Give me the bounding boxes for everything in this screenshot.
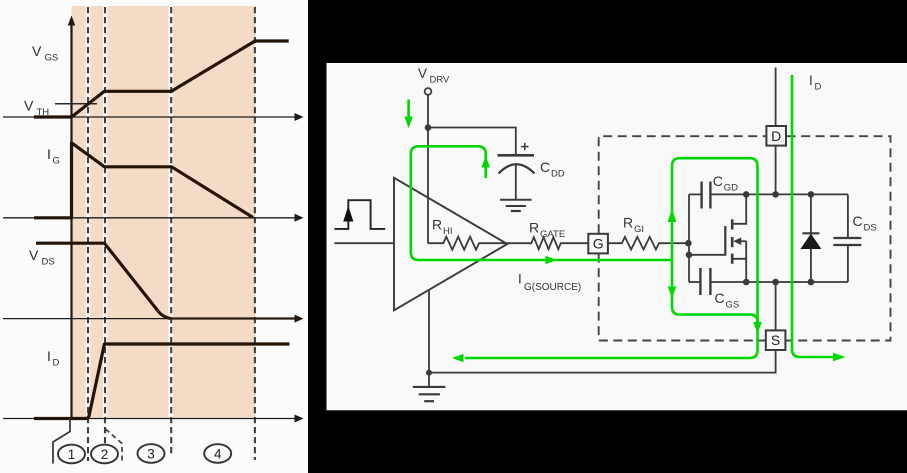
resistor RGATE	[507, 237, 588, 249]
transistor Q1 MOSFET	[725, 194, 746, 282]
svg-text:DS: DS	[42, 257, 55, 268]
op-amp driver U1	[394, 178, 507, 310]
svg-text:GD: GD	[724, 183, 738, 194]
green VDRV current arrow	[404, 100, 413, 129]
svg-text:R: R	[529, 220, 539, 236]
circled number 2	[91, 445, 118, 464]
svg-text:R: R	[623, 215, 633, 231]
label CDD	[540, 159, 565, 180]
svg-text:V: V	[29, 247, 39, 263]
svg-text:3: 3	[147, 446, 155, 461]
svg-text:C: C	[540, 159, 550, 175]
VDS waveform baseline continuation	[168, 317, 295, 319]
green wire MOSFET lower branch	[668, 260, 758, 322]
ID horizontal axis	[3, 415, 304, 423]
svg-text:G: G	[53, 156, 60, 167]
node source-S junction	[772, 279, 779, 286]
green wire CDD loop	[411, 146, 672, 264]
IG waveform	[34, 143, 253, 218]
shaded interval band 2	[90, 6, 103, 418]
label ID	[47, 348, 60, 369]
shaded interval band 4	[173, 6, 255, 418]
capacitor CGS	[689, 268, 710, 295]
svg-text:C: C	[853, 213, 863, 229]
body diode D1	[800, 194, 821, 282]
leader bracket for interval 1	[53, 419, 70, 464]
svg-text:C: C	[715, 290, 725, 306]
label RGI	[623, 215, 644, 236]
circled number 4	[204, 444, 231, 463]
VDRV terminal	[425, 88, 432, 95]
svg-text:GS: GS	[726, 300, 740, 311]
node drain-CGD junction	[743, 191, 750, 198]
resistor RHI	[428, 237, 507, 250]
resistor RGI	[607, 237, 689, 250]
label VDRV	[418, 66, 450, 86]
green ID current line	[792, 75, 846, 361]
svg-text:2: 2	[101, 447, 109, 462]
wire CDD to ground	[515, 165, 517, 200]
svg-text:I: I	[47, 146, 51, 162]
node G box	[588, 234, 608, 254]
VDS waveform	[36, 243, 170, 318]
label VGS	[32, 43, 58, 64]
svg-text:I: I	[47, 348, 51, 364]
VGS waveform	[34, 41, 289, 117]
svg-text:DD: DD	[551, 169, 565, 180]
node drain-D junction	[772, 191, 779, 198]
node source-diode junction	[808, 279, 815, 286]
left waveform panel background	[0, 0, 308, 473]
dashed leader for interval 2	[106, 429, 123, 464]
green wire MOSFET upper loop	[452, 158, 762, 362]
label VTH	[24, 98, 49, 119]
label VDS	[29, 247, 55, 268]
circuit panel white background	[327, 63, 907, 410]
node VDRV junction	[425, 124, 432, 131]
wire driver to ground	[428, 290, 430, 373]
capacitor CGD	[689, 182, 710, 209]
shaded interval band 1	[72, 6, 86, 418]
right panel black surround	[308, 0, 907, 473]
vertical time axis	[68, 16, 76, 419]
circled number 3	[138, 444, 165, 463]
wire D to drain rail	[775, 146, 777, 195]
node ground junction	[426, 370, 432, 376]
label IG	[47, 146, 60, 167]
label CGD	[713, 173, 738, 194]
svg-text:R: R	[432, 217, 442, 233]
ground (main)	[413, 373, 446, 402]
circled number 1	[58, 445, 85, 464]
svg-text:G: G	[593, 236, 604, 252]
wire source rail	[710, 281, 848, 283]
dashed boundary line t1	[87, 7, 89, 461]
svg-text:C: C	[713, 173, 723, 189]
label CDS	[853, 213, 877, 234]
dashed boundary line t2	[104, 7, 106, 461]
svg-text:4: 4	[214, 446, 222, 461]
ID waveform	[34, 344, 290, 419]
wire VDRV vertical	[427, 95, 429, 243]
node drain-diode junction	[808, 191, 815, 198]
label RHI	[432, 217, 453, 238]
svg-text:V: V	[24, 98, 34, 114]
svg-text:HI: HI	[443, 226, 453, 237]
dashed boundary line t3	[170, 7, 172, 457]
wire S return to ground	[429, 350, 776, 373]
svg-text:V: V	[418, 66, 427, 81]
svg-text:GS: GS	[45, 53, 59, 64]
wire source to S	[775, 282, 777, 330]
label IG(SOURCE)	[518, 272, 581, 294]
svg-text:1: 1	[68, 447, 76, 462]
VDS horizontal axis	[3, 315, 304, 323]
shaded interval band 3	[107, 6, 168, 418]
wire drain rail	[710, 193, 848, 195]
wire driver input	[334, 242, 394, 244]
svg-text:D: D	[53, 358, 60, 369]
wire gate to MOSFET	[689, 254, 725, 256]
wire gate vertical	[688, 194, 690, 282]
dashed MOSFET model box	[599, 136, 891, 340]
VGS horizontal axis	[3, 113, 304, 121]
svg-text:GI: GI	[634, 224, 644, 235]
node source-CGS junction	[743, 279, 750, 286]
input pulse symbol	[334, 200, 385, 229]
svg-text:I: I	[518, 272, 522, 287]
node gate lower junction	[686, 252, 693, 259]
dashed boundary line t4	[254, 7, 256, 460]
capacitor CDS	[833, 194, 861, 282]
svg-text:GATE: GATE	[540, 229, 565, 240]
svg-text:D: D	[815, 82, 822, 93]
VTH threshold level line	[55, 103, 97, 105]
svg-text:DS: DS	[864, 223, 877, 234]
node D box	[766, 126, 786, 146]
svg-text:DRV: DRV	[430, 75, 451, 86]
label ID	[809, 73, 822, 93]
wire drain top	[775, 68, 777, 127]
svg-text:D: D	[771, 128, 781, 144]
IG horizontal axis	[3, 214, 304, 222]
node S box	[766, 330, 786, 350]
capacitor CDD	[498, 143, 535, 174]
svg-text:I: I	[809, 73, 813, 88]
node gate junction	[685, 240, 692, 247]
svg-text:TH: TH	[37, 107, 50, 118]
svg-text:G(SOURCE): G(SOURCE)	[524, 282, 581, 293]
ground (CDD)	[500, 200, 532, 211]
label RGATE	[529, 220, 565, 241]
label CGS	[715, 290, 740, 311]
svg-text:S: S	[771, 332, 780, 348]
svg-text:V: V	[32, 43, 42, 59]
wire to CDD	[428, 128, 516, 156]
